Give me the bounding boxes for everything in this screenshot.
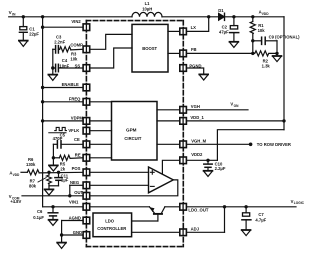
node terminal dot row driver: [249, 143, 253, 147]
svg-text:10µH: 10µH: [142, 6, 152, 11]
svg-text:10k: 10k: [258, 28, 266, 33]
wire NEG row: [70, 184, 83, 186]
GPM CIRCUIT block: [112, 102, 158, 161]
label OUT: [74, 190, 83, 195]
diode D1: [218, 8, 224, 20]
label FREQ: [69, 97, 81, 102]
pin VGH_M: [180, 141, 187, 148]
wire FREQ to rail: [43, 101, 84, 103]
wire LDO to ADJ: [132, 231, 180, 233]
svg-text:CIRCUIT: CIRCUIT: [124, 136, 141, 141]
svg-text:VDD: VDD: [262, 12, 269, 16]
svg-text:OUT: OUT: [74, 190, 83, 195]
svg-text:C6: C6: [37, 209, 43, 214]
ground under PGND: [199, 74, 208, 80]
pin VDD_1: [180, 118, 187, 125]
node junction C1 on VIN rail: [22, 15, 25, 18]
wire GPM to VGH: [157, 109, 180, 111]
pin GND: [83, 232, 90, 239]
label VDD2: [191, 152, 203, 157]
wire FB row: [186, 52, 252, 54]
label ADJ: [191, 227, 200, 232]
wire VGH row V_ON: [186, 109, 248, 111]
pin LX: [180, 28, 187, 35]
label VDPM: [71, 115, 84, 120]
pin NEG: [83, 182, 90, 189]
svg-text:47µF: 47µF: [219, 29, 229, 34]
wire POS row from AVDD: [21, 171, 27, 173]
wire ADJ row extension to riser: [186, 231, 224, 233]
wire transistor collector to LDO_OUT: [165, 206, 180, 208]
pin ENABLE: [83, 84, 90, 91]
ground under C6: [49, 220, 58, 226]
svg-text:RE: RE: [75, 152, 81, 157]
node junction R7 on POS row: [47, 171, 50, 174]
label LX: [191, 25, 197, 30]
svg-text:ADJ: ADJ: [191, 227, 200, 232]
wire GPM to VGH_M: [157, 143, 180, 145]
wire COMP network stub vertical: [52, 49, 54, 74]
wire GPM to VDD_1: [157, 120, 180, 122]
capacitor C6: [33, 207, 58, 220]
label RE: [75, 152, 81, 157]
svg-text:LDO: LDO: [105, 219, 115, 224]
node junction R1 on top rail: [251, 15, 254, 18]
wire VIN1 to transistor emitter: [90, 206, 150, 208]
pin VIN1: [83, 204, 90, 211]
label VGH: [191, 104, 200, 109]
node junction VDPM: [41, 119, 44, 122]
label LDO_OUT: [188, 208, 208, 213]
wire VDD2 supply to op-amp: [162, 160, 179, 174]
svg-text:GPM: GPM: [126, 128, 137, 133]
wire FREQ to GPM: [90, 101, 112, 103]
node junction ENABLE: [41, 86, 44, 89]
svg-text:PGND: PGND: [189, 63, 201, 68]
svg-text:VIN1: VIN1: [69, 199, 79, 204]
wire VDD_1 row to AVDD rail: [186, 120, 284, 122]
ground under R7/C11: [45, 189, 54, 195]
wire CE row left: [53, 143, 57, 145]
wire COMP row left: [53, 48, 55, 50]
svg-text:1.3k: 1.3k: [262, 63, 271, 68]
ground under C10: [204, 171, 213, 177]
wire SS row to pin: [58, 67, 83, 69]
capacitor C11: [49, 172, 69, 186]
wire ENABLE to rail: [43, 87, 84, 89]
node junction C2 on top rail: [232, 15, 235, 18]
svg-text:POS: POS: [72, 166, 81, 171]
svg-text:130k: 130k: [26, 162, 36, 167]
LDO CONTROLLER block: [93, 213, 132, 237]
wire COMP to BOOST stair: [90, 34, 132, 49]
svg-text:0.1µF: 0.1µF: [33, 215, 44, 220]
wire VDPM to GPM: [90, 120, 112, 122]
pin VDPM: [83, 118, 90, 125]
label AGND: [69, 216, 81, 221]
svg-text:VDD_1: VDD_1: [190, 115, 204, 120]
svg-text:4.7µF: 4.7µF: [255, 217, 266, 222]
resistor R3: [58, 47, 83, 62]
label VIN1: [69, 199, 79, 204]
node junction LX on top rail: [207, 15, 210, 18]
wire SS row left: [53, 67, 55, 69]
node junction VDD_1 on AVDD rail: [282, 119, 285, 122]
wire LX riser to top rail: [186, 17, 208, 32]
label CE: [74, 137, 80, 142]
svg-text:COMP: COMP: [70, 43, 83, 48]
node junction VIN rail top: [41, 15, 44, 18]
node junction ADJ feedback on LDO_OUT row: [223, 205, 226, 208]
wire OUT row to VCOM: [22, 195, 83, 197]
capacitor C3: [54, 35, 65, 53]
label POS: [72, 166, 81, 171]
node VCOM label left: [9, 194, 22, 204]
label TO ROW DRIVER: [257, 142, 291, 147]
label ENABLE: [62, 82, 79, 87]
wire RE row left: [53, 157, 59, 159]
pin LDO_OUT: [180, 204, 187, 211]
node junction C6 on VIN1 row: [51, 205, 54, 208]
op-amp U-buffer: [149, 167, 174, 193]
node junction GND link: [60, 233, 63, 236]
svg-text:ON: ON: [234, 104, 239, 108]
node junction FREQ: [41, 100, 44, 103]
transistor Q1 pass PNP: [132, 207, 165, 221]
clock waveform symbol VFLK: [49, 127, 67, 132]
wire BOOST to LX: [168, 30, 180, 32]
svg-text:2.2µF: 2.2µF: [215, 166, 226, 171]
capacitor C9: [253, 35, 300, 54]
wire VFLK to GPM: [90, 130, 112, 132]
wire VGH_M row to row driver: [186, 143, 250, 145]
capacitor C2: [219, 17, 239, 42]
pin VDD2: [180, 157, 187, 164]
node VLOGIC label: [291, 199, 305, 205]
node junction C10 on VDD2 row: [206, 159, 209, 162]
wire top after inductor to diode: [162, 16, 219, 18]
pin COMP: [83, 46, 90, 53]
svg-text:VFLK: VFLK: [68, 128, 79, 133]
wire PGND to ground: [186, 68, 203, 74]
svg-text:+4.8V: +4.8V: [10, 199, 21, 204]
node junction NEG feedback on OUT row: [68, 194, 71, 197]
svg-text:FB: FB: [191, 47, 197, 52]
node junction SS stub: [51, 66, 54, 69]
label VIN2: [71, 19, 81, 24]
pin POS: [83, 169, 90, 176]
pin PGND: [180, 65, 187, 72]
ground under AGND/GND: [57, 243, 66, 249]
node junction R2/C9/ground: [275, 52, 278, 55]
ground under R2: [273, 53, 282, 61]
svg-text:LDO_OUT: LDO_OUT: [188, 208, 208, 213]
resistor R6: [26, 157, 83, 175]
svg-text:C7: C7: [258, 212, 264, 217]
node V_ON label: [230, 102, 239, 108]
ground under C2: [230, 42, 239, 48]
svg-text:ENABLE: ENABLE: [62, 82, 79, 87]
pin OUT: [83, 193, 90, 200]
capacitor C10: [204, 160, 226, 171]
pin CE: [83, 141, 90, 148]
wire NEG to op-amp: [90, 184, 149, 186]
wire SS to BOOST stair: [90, 48, 132, 68]
label NEG: [70, 180, 79, 185]
wire AVDD rail right vertical: [283, 17, 285, 130]
svg-text:TO ROW DRIVER: TO ROW DRIVER: [257, 142, 291, 147]
wire ADJ feedback riser: [224, 207, 226, 233]
svg-text:LX: LX: [191, 25, 197, 30]
wire CE row cap to pin: [61, 143, 83, 145]
wire AGND row: [62, 220, 84, 222]
svg-text:22µF: 22µF: [29, 32, 39, 37]
wire BOOST to FB: [168, 52, 180, 54]
wire VIN1 row from rail: [43, 206, 84, 208]
capacitor C4: [56, 58, 70, 72]
node AVDD label left: [9, 171, 20, 177]
pin FB: [180, 50, 187, 57]
wire VDPM to rail: [43, 120, 84, 122]
svg-text:VDPM: VDPM: [71, 115, 84, 120]
label GND: [73, 230, 82, 235]
svg-text:CE: CE: [74, 137, 80, 142]
pin VGH: [180, 107, 187, 114]
svg-text:NEG: NEG: [70, 180, 79, 185]
pin RE: [83, 155, 90, 162]
svg-text:10k: 10k: [70, 56, 78, 61]
node junction R1/C9: [251, 39, 254, 42]
svg-text:VGH: VGH: [191, 104, 200, 109]
resistor R1: [250, 17, 265, 41]
resistor R2: [253, 51, 277, 69]
label PGND: [189, 63, 201, 68]
wire top VIN rail: [9, 16, 132, 18]
wire VIN2 to rail: [43, 26, 84, 28]
svg-text:D1: D1: [218, 8, 224, 13]
capacitor C7: [242, 207, 267, 230]
svg-text:VIN2: VIN2: [71, 19, 81, 24]
capacitor C5: [53, 133, 66, 148]
label COMP: [70, 43, 83, 48]
label VGH_M: [191, 138, 206, 143]
svg-text:2.2nF: 2.2nF: [54, 39, 65, 44]
svg-text:470P: 470P: [53, 136, 63, 141]
svg-text:VDD2: VDD2: [191, 152, 203, 157]
wire LDO_OUT row to VLOGIC: [186, 206, 296, 208]
resistor R5: [59, 155, 83, 171]
svg-text:VDD: VDD: [13, 173, 20, 177]
label FB: [191, 47, 197, 52]
svg-text:1µF: 1µF: [61, 177, 69, 182]
svg-text:BOOST: BOOST: [142, 46, 157, 51]
pin VFLK: [83, 127, 90, 134]
node junction VIN2: [41, 26, 44, 29]
svg-text:VGH_M: VGH_M: [191, 138, 206, 143]
wire CE/RE ground stub vertical: [52, 144, 54, 165]
node junction RE stub: [52, 156, 55, 159]
svg-text:LOGIC: LOGIC: [294, 201, 305, 205]
svg-text:CONTROLLER: CONTROLLER: [97, 226, 126, 231]
svg-text:80k: 80k: [29, 184, 37, 189]
wire R1 node down to FB row: [252, 41, 254, 54]
ground under C7: [242, 230, 251, 236]
wire VDD2 row: [186, 159, 217, 161]
IC boundary dashed box: [86, 21, 183, 247]
inductor L1: [132, 1, 162, 17]
label SS: [75, 63, 81, 68]
pin AGND: [83, 217, 90, 224]
svg-text:2k: 2k: [60, 166, 65, 171]
wire VIN vertical rail: [42, 17, 44, 207]
pin SS: [83, 65, 90, 72]
resistor R7: [29, 172, 51, 189]
ground under C1: [19, 41, 28, 47]
node junction C7 on LDO_OUT row: [244, 205, 247, 208]
label VFLK: [68, 128, 79, 133]
pin FREQ: [83, 99, 90, 106]
BOOST block U-boost: [132, 24, 168, 72]
wire AGND/GND common vertical: [61, 221, 63, 243]
node junction FB/R2: [251, 52, 254, 55]
svg-text:GND: GND: [73, 230, 82, 235]
svg-text:SS: SS: [75, 63, 81, 68]
svg-text:C4: C4: [62, 58, 68, 63]
pin VIN2: [83, 24, 90, 31]
node AVDD label top: [259, 10, 270, 16]
wire op-amp output loop to OUT: [90, 180, 178, 196]
capacitor C1: [19, 17, 39, 41]
wire RE to GPM: [90, 157, 112, 159]
ground under CE/RE network: [49, 165, 58, 171]
svg-text:FREQ: FREQ: [69, 97, 81, 102]
ground under COMP/SS network: [48, 75, 57, 81]
wire NEG to OUT feedback vertical: [69, 185, 71, 196]
wire POS to op-amp: [90, 171, 149, 173]
wire CE to GPM: [90, 143, 112, 145]
svg-text:AGND: AGND: [69, 216, 81, 221]
node VIN label: [9, 10, 16, 16]
label VDD_1: [190, 115, 204, 120]
wire AVDD rail elbow to VDD2: [217, 130, 284, 161]
pin ADJ: [180, 229, 187, 236]
node junction C11 on POS row: [57, 171, 60, 174]
wire top diode to AVDD corner: [225, 16, 284, 18]
wire GND row: [62, 234, 84, 236]
